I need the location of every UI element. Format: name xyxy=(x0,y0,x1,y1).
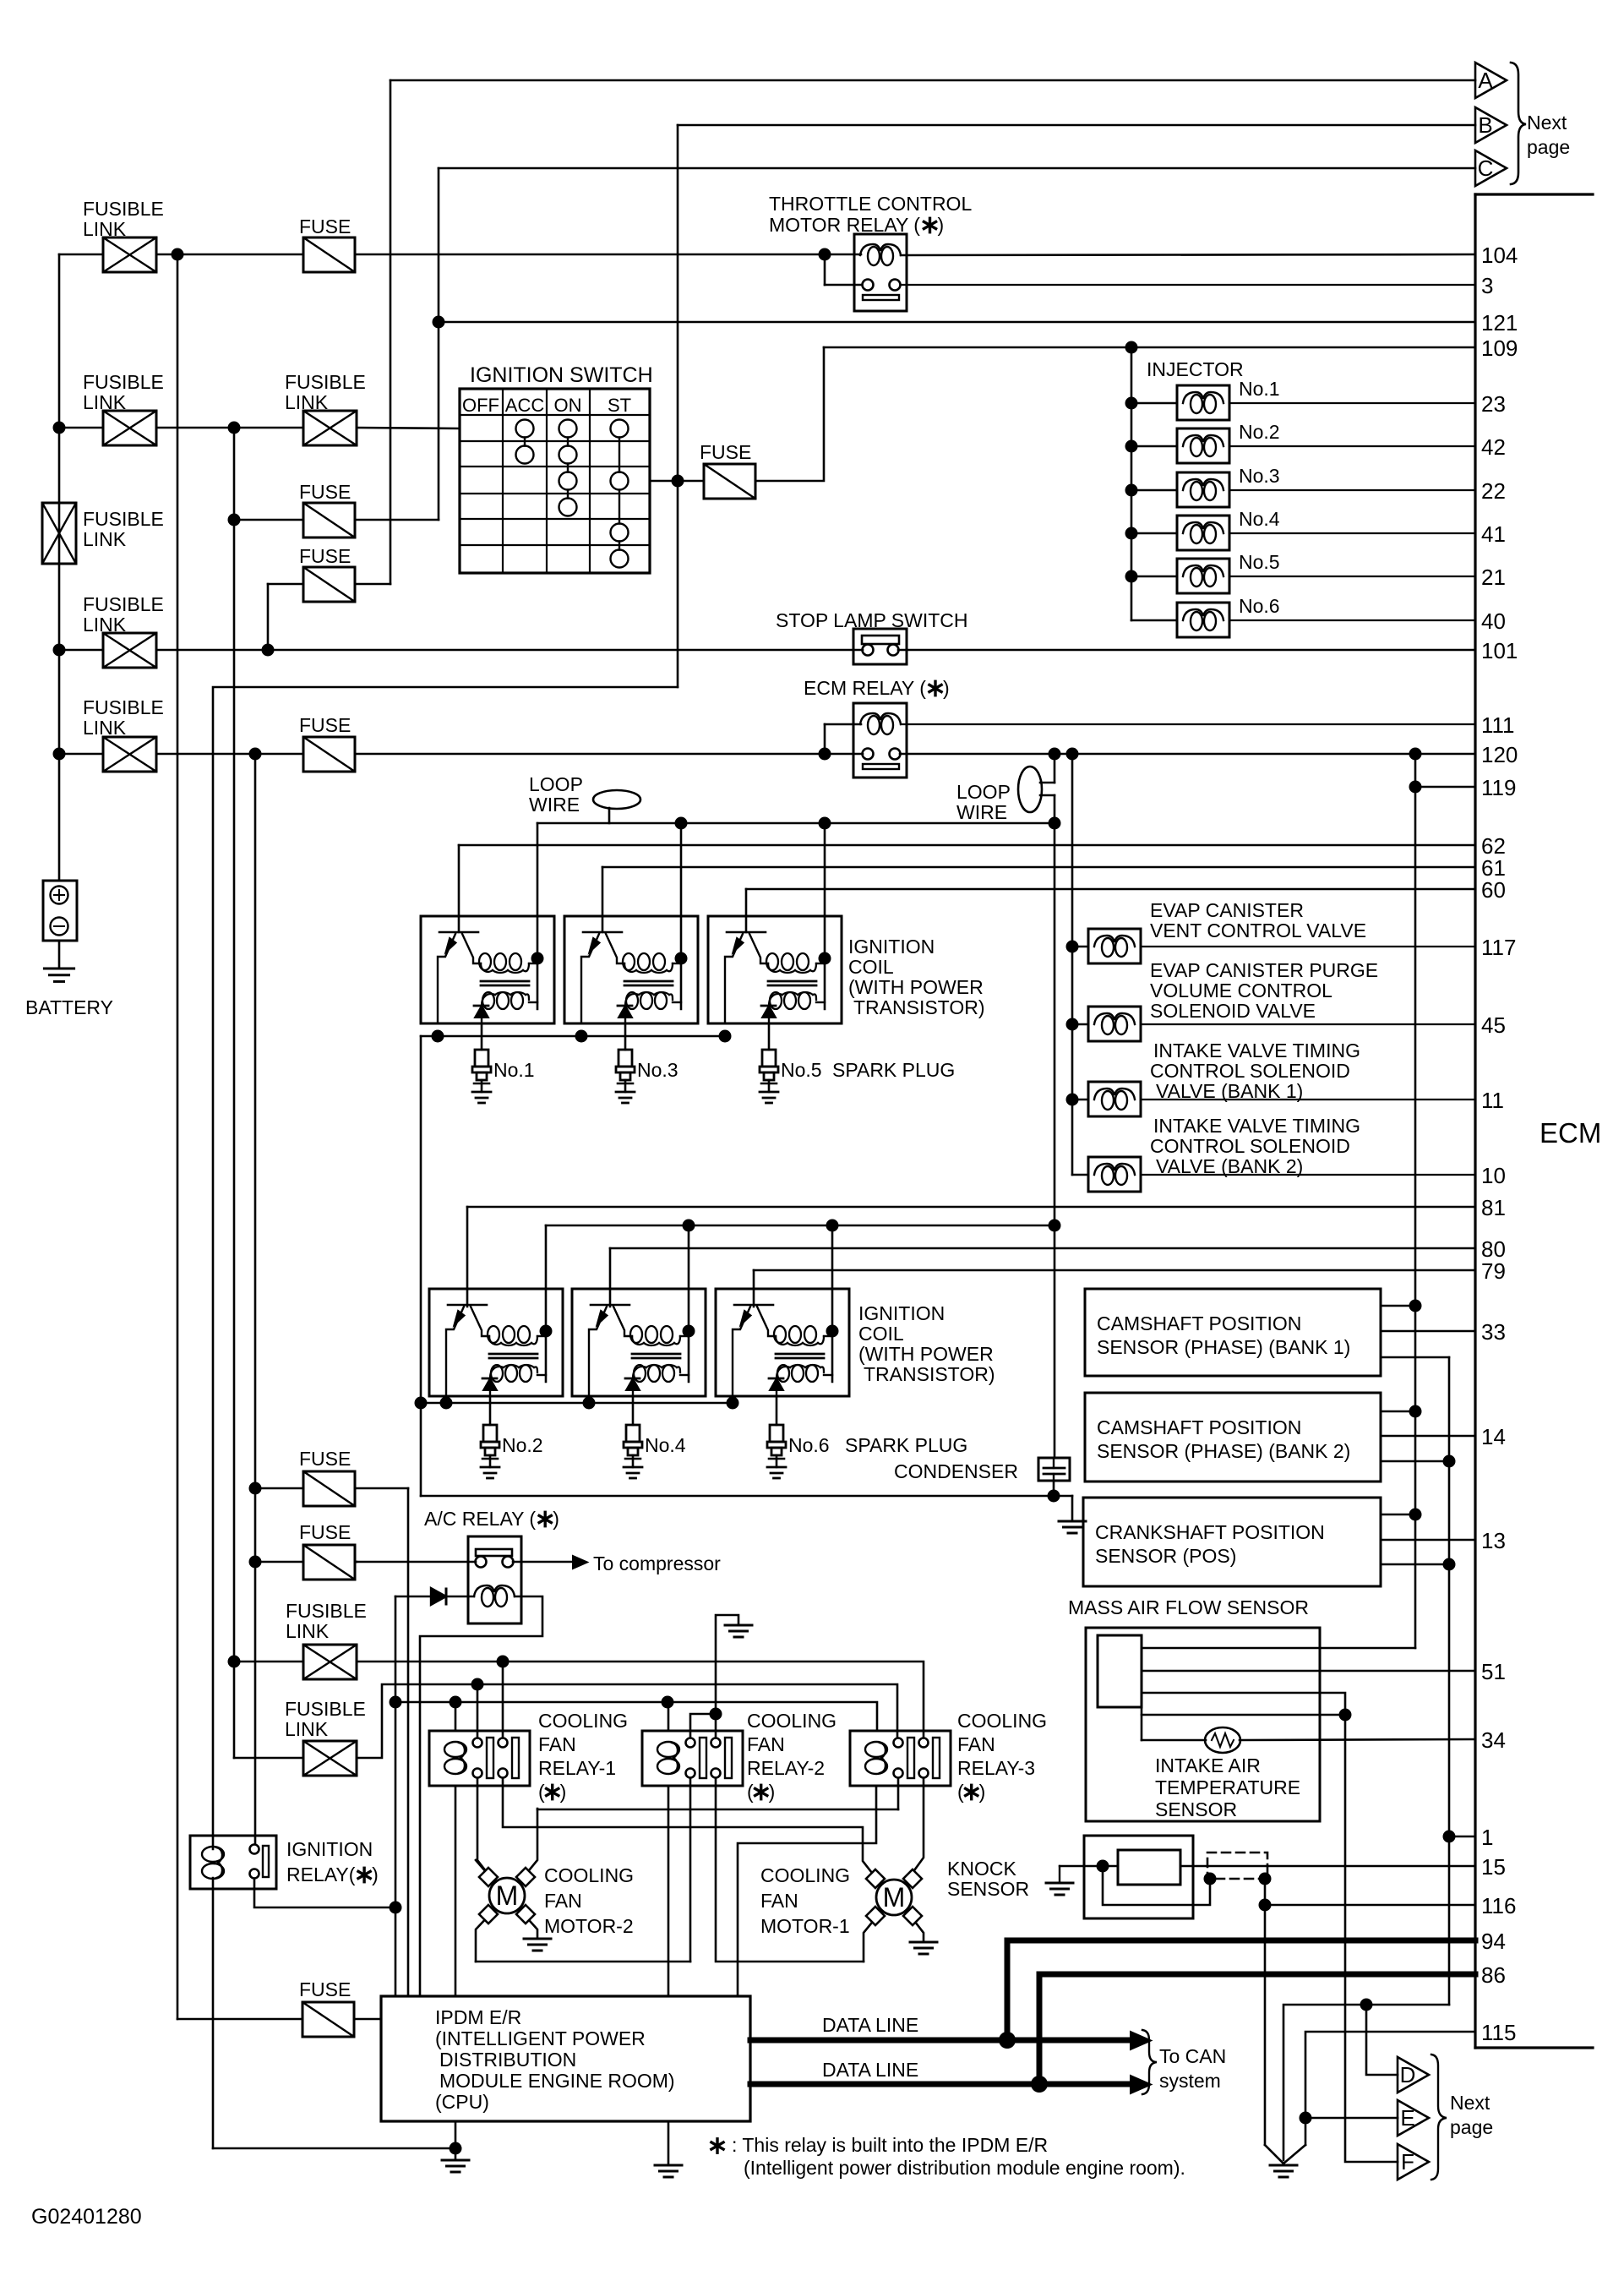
svg-text:10: 10 xyxy=(1481,1163,1506,1188)
svg-text:121: 121 xyxy=(1481,310,1518,336)
svg-text:1: 1 xyxy=(1481,1825,1493,1850)
svg-text:RELAY-1: RELAY-1 xyxy=(538,1757,616,1779)
svg-text:IGNITION: IGNITION xyxy=(286,1838,373,1860)
svg-text:FUSIBLE: FUSIBLE xyxy=(285,371,366,393)
svg-text:No.1: No.1 xyxy=(1239,378,1280,400)
svg-text:COIL: COIL xyxy=(848,956,894,978)
svg-text:ECM: ECM xyxy=(1540,1117,1601,1149)
svg-text:SENSOR (PHASE) (BANK 2): SENSOR (PHASE) (BANK 2) xyxy=(1097,1440,1350,1462)
svg-text:A/C RELAY (: A/C RELAY ( xyxy=(424,1508,536,1530)
svg-text:No.5: No.5 xyxy=(781,1059,822,1081)
svg-text:COOLING: COOLING xyxy=(957,1710,1047,1732)
svg-text:22: 22 xyxy=(1481,478,1506,504)
svg-text:KNOCK: KNOCK xyxy=(947,1858,1016,1880)
svg-text:SENSOR (POS): SENSOR (POS) xyxy=(1095,1545,1236,1567)
svg-text:SPARK PLUG: SPARK PLUG xyxy=(832,1059,955,1081)
svg-text:LINK: LINK xyxy=(83,528,127,550)
svg-text:120: 120 xyxy=(1481,742,1518,767)
svg-text:FUSE: FUSE xyxy=(299,1521,351,1543)
svg-text:FAN: FAN xyxy=(538,1733,576,1755)
svg-text:FAN: FAN xyxy=(747,1733,785,1755)
svg-text:FAN: FAN xyxy=(544,1890,582,1912)
svg-text:RELAY-2: RELAY-2 xyxy=(747,1757,825,1779)
svg-text:(: ( xyxy=(957,1781,964,1803)
svg-text:(Intelligent power distributio: (Intelligent power distribution module e… xyxy=(744,2157,1185,2179)
svg-text:34: 34 xyxy=(1481,1727,1506,1753)
svg-text:CRANKSHAFT POSITION: CRANKSHAFT POSITION xyxy=(1095,1521,1325,1543)
svg-text:INJECTOR: INJECTOR xyxy=(1147,358,1244,380)
svg-text:109: 109 xyxy=(1481,336,1518,361)
svg-text:DISTRIBUTION: DISTRIBUTION xyxy=(439,2049,576,2071)
svg-text:FUSE: FUSE xyxy=(299,545,351,567)
svg-text:F: F xyxy=(1401,2149,1414,2175)
svg-text:IGNITION: IGNITION xyxy=(848,936,935,958)
svg-text:EVAP CANISTER: EVAP CANISTER xyxy=(1150,899,1304,921)
svg-text:LINK: LINK xyxy=(83,218,127,240)
svg-text:TEMPERATURE: TEMPERATURE xyxy=(1155,1776,1300,1798)
svg-text:79: 79 xyxy=(1481,1258,1506,1284)
svg-text:111: 111 xyxy=(1481,712,1515,738)
svg-text:101: 101 xyxy=(1481,638,1518,663)
svg-text:IPDM E/R: IPDM E/R xyxy=(435,2006,521,2028)
svg-text:G02401280: G02401280 xyxy=(31,2205,142,2229)
svg-text:CONTROL SOLENOID: CONTROL SOLENOID xyxy=(1150,1060,1350,1082)
svg-text:14: 14 xyxy=(1481,1424,1506,1449)
svg-text:SENSOR: SENSOR xyxy=(1155,1798,1237,1820)
svg-text:COOLING: COOLING xyxy=(760,1864,850,1886)
svg-text:(WITH POWER: (WITH POWER xyxy=(848,976,984,998)
svg-text:COOLING: COOLING xyxy=(538,1710,628,1732)
svg-text:CONTROL SOLENOID: CONTROL SOLENOID xyxy=(1150,1135,1350,1157)
svg-text:23: 23 xyxy=(1481,391,1506,417)
svg-text:(: ( xyxy=(747,1781,754,1803)
svg-text:TRANSISTOR): TRANSISTOR) xyxy=(864,1363,995,1385)
svg-text:page: page xyxy=(1450,2116,1493,2138)
svg-text:FUSE: FUSE xyxy=(299,1448,351,1470)
svg-text:21: 21 xyxy=(1481,565,1506,590)
svg-text:94: 94 xyxy=(1481,1929,1506,1954)
svg-text:SENSOR: SENSOR xyxy=(947,1878,1029,1900)
svg-text:CONDENSER: CONDENSER xyxy=(894,1460,1018,1482)
svg-text:81: 81 xyxy=(1481,1195,1506,1220)
svg-text:45: 45 xyxy=(1481,1012,1506,1038)
svg-text:(WITH POWER: (WITH POWER xyxy=(858,1343,994,1365)
svg-text:116: 116 xyxy=(1481,1893,1516,1918)
svg-text:DATA LINE: DATA LINE xyxy=(822,2014,918,2036)
svg-text:VENT CONTROL VALVE: VENT CONTROL VALVE xyxy=(1150,919,1366,941)
svg-text:COOLING: COOLING xyxy=(747,1710,837,1732)
svg-text:No.4: No.4 xyxy=(1239,508,1280,530)
svg-text:No.4: No.4 xyxy=(645,1434,686,1456)
svg-text:33: 33 xyxy=(1481,1319,1506,1345)
svg-text:WIRE: WIRE xyxy=(956,801,1007,823)
svg-text:B: B xyxy=(1478,112,1492,138)
svg-text:FUSIBLE: FUSIBLE xyxy=(286,1600,367,1622)
svg-text:MOTOR RELAY (: MOTOR RELAY ( xyxy=(769,214,920,236)
svg-text:DATA LINE: DATA LINE xyxy=(822,2059,918,2081)
svg-text:86: 86 xyxy=(1481,1962,1506,1988)
svg-text:11: 11 xyxy=(1481,1088,1504,1113)
svg-text:WIRE: WIRE xyxy=(529,794,580,816)
svg-text:C: C xyxy=(1478,156,1494,181)
svg-text:LINK: LINK xyxy=(285,1718,329,1740)
svg-text:CAMSHAFT POSITION: CAMSHAFT POSITION xyxy=(1097,1312,1301,1334)
svg-text:51: 51 xyxy=(1481,1659,1506,1684)
svg-text:15: 15 xyxy=(1481,1854,1506,1880)
svg-text:MODULE ENGINE ROOM): MODULE ENGINE ROOM) xyxy=(439,2070,675,2092)
svg-text:3: 3 xyxy=(1481,273,1493,298)
svg-text:): ) xyxy=(769,1781,776,1803)
svg-text:): ) xyxy=(560,1781,567,1803)
svg-text:FUSIBLE: FUSIBLE xyxy=(83,371,164,393)
svg-text:RELAY-3: RELAY-3 xyxy=(957,1757,1035,1779)
svg-text:ACC: ACC xyxy=(505,395,545,416)
svg-text:): ) xyxy=(943,677,950,699)
svg-text:IGNITION SWITCH: IGNITION SWITCH xyxy=(470,363,653,387)
svg-text:TRANSISTOR): TRANSISTOR) xyxy=(853,996,984,1018)
svg-text:LOOP: LOOP xyxy=(529,773,583,795)
svg-text:ECM RELAY (: ECM RELAY ( xyxy=(804,677,926,699)
svg-text:THROTTLE CONTROL: THROTTLE CONTROL xyxy=(769,193,972,215)
svg-text:(CPU): (CPU) xyxy=(435,2091,489,2113)
svg-text:13: 13 xyxy=(1481,1528,1506,1553)
svg-text:115: 115 xyxy=(1481,2020,1516,2045)
svg-text:Next: Next xyxy=(1450,2092,1490,2114)
svg-text:page: page xyxy=(1527,136,1570,158)
svg-text:No.3: No.3 xyxy=(637,1059,678,1081)
svg-text:ON: ON xyxy=(554,395,582,416)
svg-text:117: 117 xyxy=(1481,935,1516,960)
svg-text:COIL: COIL xyxy=(858,1323,904,1345)
svg-text:No.3: No.3 xyxy=(1239,465,1280,487)
svg-text:CAMSHAFT POSITION: CAMSHAFT POSITION xyxy=(1097,1416,1301,1438)
svg-text:FUSIBLE: FUSIBLE xyxy=(83,696,164,718)
svg-text:FUSIBLE: FUSIBLE xyxy=(83,198,164,220)
svg-text:104: 104 xyxy=(1481,243,1518,268)
svg-text:FAN: FAN xyxy=(760,1890,798,1912)
svg-text:FAN: FAN xyxy=(957,1733,995,1755)
svg-text:FUSIBLE: FUSIBLE xyxy=(83,593,164,615)
svg-text:FUSIBLE: FUSIBLE xyxy=(83,508,164,530)
svg-text:MOTOR-1: MOTOR-1 xyxy=(760,1915,850,1937)
svg-text:41: 41 xyxy=(1481,521,1506,547)
svg-text:D: D xyxy=(1400,2062,1416,2087)
svg-text:FUSE: FUSE xyxy=(700,441,751,463)
svg-text:LINK: LINK xyxy=(83,717,127,739)
svg-text:No.2: No.2 xyxy=(1239,421,1280,443)
svg-text:Next: Next xyxy=(1527,112,1567,134)
svg-text:INTAKE VALVE TIMING: INTAKE VALVE TIMING xyxy=(1153,1115,1360,1137)
svg-text:No.1: No.1 xyxy=(493,1059,535,1081)
svg-text:RELAY(: RELAY( xyxy=(286,1864,356,1885)
svg-text:): ) xyxy=(372,1864,379,1885)
svg-text:system: system xyxy=(1159,2070,1221,2092)
svg-text:FUSE: FUSE xyxy=(299,714,351,736)
svg-text:SPARK PLUG: SPARK PLUG xyxy=(845,1434,967,1456)
svg-text:M: M xyxy=(496,1880,519,1911)
svg-text:FUSE: FUSE xyxy=(299,1978,351,2000)
svg-text:COOLING: COOLING xyxy=(544,1864,634,1886)
svg-text:FUSE: FUSE xyxy=(299,216,351,237)
svg-text:BATTERY: BATTERY xyxy=(25,996,113,1018)
svg-text:To compressor: To compressor xyxy=(593,1552,721,1574)
svg-text:42: 42 xyxy=(1481,434,1506,460)
svg-text:ST: ST xyxy=(608,395,631,416)
svg-text:: This relay is built into the: : This relay is built into the IPDM E/R xyxy=(732,2134,1048,2156)
svg-text:40: 40 xyxy=(1481,608,1506,634)
svg-text:119: 119 xyxy=(1481,775,1516,800)
svg-text:FUSE: FUSE xyxy=(299,481,351,503)
svg-text:IGNITION: IGNITION xyxy=(858,1302,945,1324)
svg-text:INTAKE VALVE TIMING: INTAKE VALVE TIMING xyxy=(1153,1040,1360,1061)
svg-text:): ) xyxy=(979,1781,986,1803)
svg-text:MOTOR-2: MOTOR-2 xyxy=(544,1915,634,1937)
svg-text:No.2: No.2 xyxy=(502,1434,543,1456)
svg-text:INTAKE AIR: INTAKE AIR xyxy=(1155,1754,1261,1776)
svg-text:LINK: LINK xyxy=(286,1620,330,1642)
svg-text:No.6: No.6 xyxy=(788,1434,830,1456)
svg-text:LOOP: LOOP xyxy=(956,781,1011,803)
svg-text:60: 60 xyxy=(1481,877,1506,903)
svg-text:No.5: No.5 xyxy=(1239,551,1280,573)
svg-text:(: ( xyxy=(538,1781,545,1803)
svg-text:To CAN: To CAN xyxy=(1159,2045,1226,2067)
svg-text:MASS AIR FLOW SENSOR: MASS AIR FLOW SENSOR xyxy=(1068,1596,1309,1618)
svg-text:): ) xyxy=(553,1508,559,1530)
svg-text:OFF: OFF xyxy=(462,395,499,416)
svg-text:SENSOR (PHASE) (BANK 1): SENSOR (PHASE) (BANK 1) xyxy=(1097,1336,1350,1358)
svg-text:No.6: No.6 xyxy=(1239,595,1280,617)
svg-text:E: E xyxy=(1400,2105,1414,2131)
svg-text:): ) xyxy=(937,214,944,236)
svg-text:A: A xyxy=(1478,68,1493,93)
svg-text:FUSIBLE: FUSIBLE xyxy=(285,1698,366,1720)
svg-text:M: M xyxy=(883,1882,906,1913)
svg-text:SOLENOID VALVE: SOLENOID VALVE xyxy=(1150,1000,1316,1022)
svg-text:VOLUME CONTROL: VOLUME CONTROL xyxy=(1150,980,1332,1001)
svg-text:EVAP CANISTER PURGE: EVAP CANISTER PURGE xyxy=(1150,959,1378,981)
svg-text:(INTELLIGENT POWER: (INTELLIGENT POWER xyxy=(435,2027,646,2049)
